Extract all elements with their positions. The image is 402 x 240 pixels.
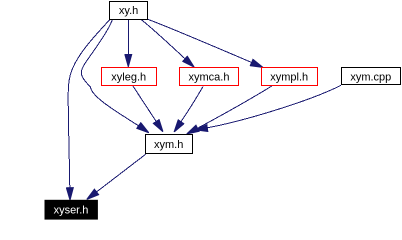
svg-text:xyser.h: xyser.h (54, 205, 89, 217)
svg-text:xymca.h: xymca.h (189, 72, 230, 84)
wire xy.h to xym.h (81, 20, 148, 133)
wire xy.h to xyleg.h (127, 19, 129, 66)
node xyleg.h (102, 68, 157, 86)
node xym.h (146, 135, 193, 154)
wire xymca.h to xym.h (175, 87, 204, 132)
node xyser.h (45, 200, 97, 219)
wire xym.cpp to xym.h (196, 85, 341, 129)
node xy.h (110, 2, 148, 20)
svg-text:xympl.h: xympl.h (270, 72, 308, 84)
svg-text:xym.cpp: xym.cpp (350, 71, 391, 83)
wire xy.h to xympl.h (148, 19, 262, 67)
wire xym.h to xyser.h (87, 154, 145, 199)
svg-text:xy.h: xy.h (119, 5, 138, 17)
wire xy.h to xymca.h (141, 20, 193, 67)
svg-text:xym.h: xym.h (154, 139, 183, 151)
node xym.cpp (342, 68, 401, 85)
node xymca.h (180, 68, 239, 86)
wire xyleg.h to xym.h (133, 86, 163, 131)
svg-text:xyleg.h: xyleg.h (111, 72, 146, 84)
wire xympl.h to xym.h (187, 86, 271, 134)
wire xy.h to xyser.h (68, 20, 110, 200)
node xympl.h (262, 68, 318, 86)
